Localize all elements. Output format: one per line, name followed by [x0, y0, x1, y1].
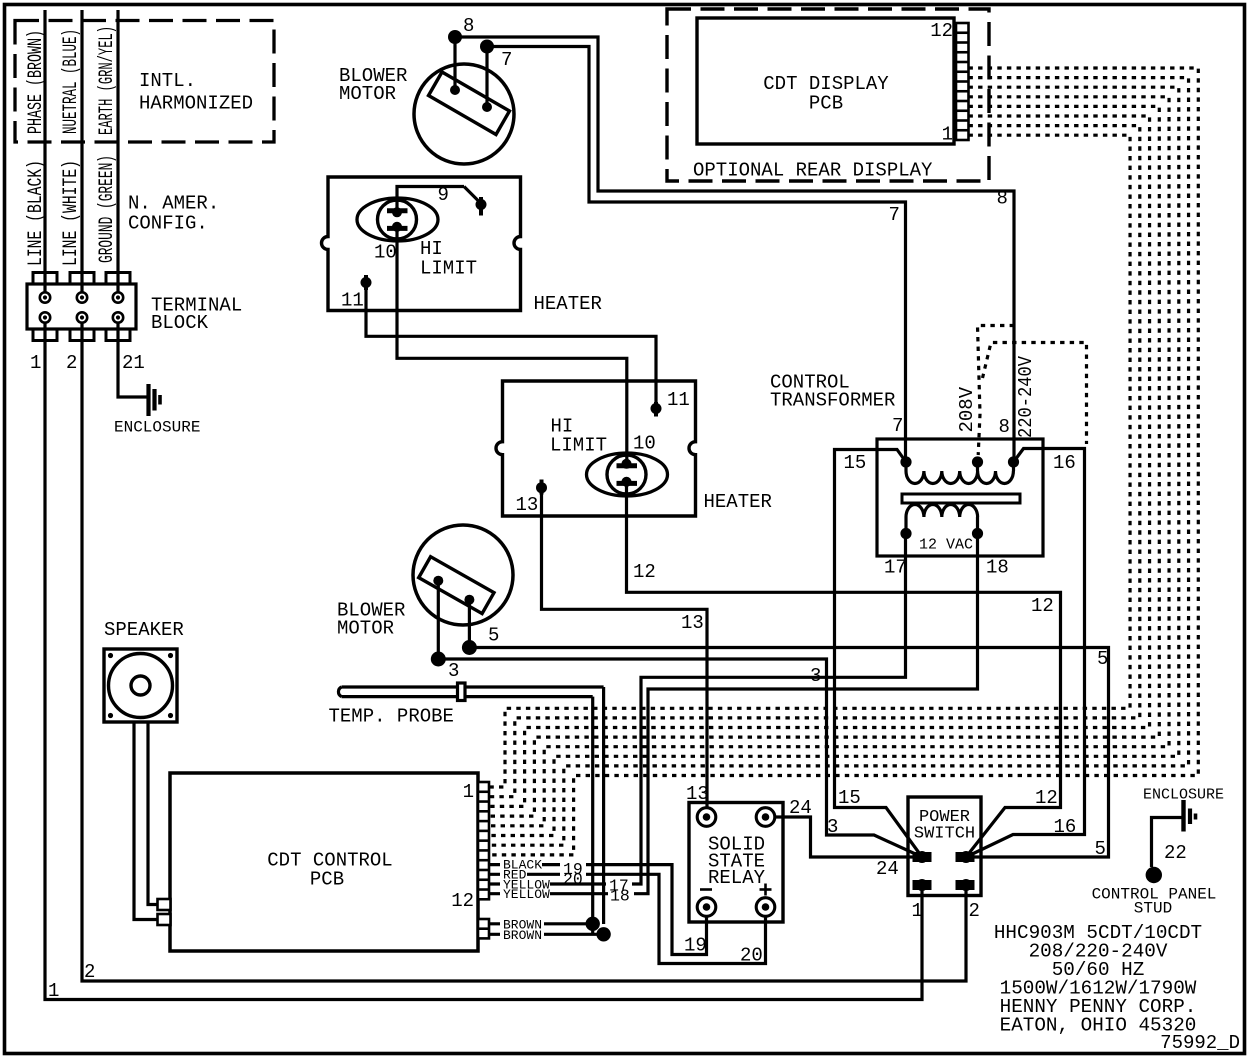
probe wire down (outer) — [602, 687, 605, 924]
switch pin 2 node — [960, 879, 972, 891]
svg-text:1: 1 — [463, 781, 474, 803]
svg-text:1: 1 — [48, 980, 59, 1002]
solid state relay SSR1 box — [689, 803, 783, 923]
svg-text:OPTIONAL REAR DISPLAY: OPTIONAL REAR DISPLAY — [693, 160, 933, 182]
pin 11 terminal dot (heater 2) — [651, 403, 662, 414]
power switch SW1 box — [908, 797, 981, 896]
switch lever to pin 9 — [464, 187, 479, 202]
wire 20 RED: control PCB to SSR plus — [489, 874, 766, 963]
wire 8: blower motor to transformer tap — [455, 37, 1014, 462]
svg-text:MOTOR: MOTOR — [337, 618, 394, 640]
SSR terminal minus — [697, 898, 716, 917]
wire 18: transformer secondary to CDT control PCB — [489, 534, 978, 894]
svg-text:15: 15 — [844, 452, 867, 474]
svg-text:1: 1 — [912, 900, 923, 922]
svg-text:TRANSFORMER: TRANSFORMER — [770, 390, 895, 412]
svg-text:7: 7 — [501, 49, 512, 71]
svg-text:2: 2 — [969, 900, 980, 922]
svg-text:12: 12 — [1035, 787, 1058, 809]
blower motor B2 pin 3 inner dot — [433, 576, 443, 586]
heater 2 outline with notches — [496, 381, 696, 516]
junction dot brown/probe upper — [586, 917, 600, 931]
wire from S1 top contact to lever — [397, 187, 464, 211]
white gaps for BROWN labels — [500, 920, 544, 928]
SSR terminal plus — [756, 898, 775, 917]
SSR plus sign — [760, 888, 772, 891]
svg-text:PCB: PCB — [310, 869, 344, 891]
junction dot pin 3 — [431, 652, 446, 667]
svg-text:PCB: PCB — [809, 93, 843, 115]
SSR minus sign — [700, 888, 712, 891]
blower motor B2 pin 5 lead — [468, 600, 471, 648]
wire 5: blower motor 2 to power switch — [469, 648, 1108, 858]
dotted display bus wire 4 (display pin to control PCB pin 5) — [489, 97, 1169, 826]
svg-text:9: 9 — [438, 184, 449, 206]
dotted display bus wire 3 (display pin to control PCB pin 6) — [489, 87, 1179, 835]
control PCB speaker connector tabs — [158, 899, 171, 910]
svg-text:BLOCK: BLOCK — [151, 312, 209, 334]
svg-text:7: 7 — [892, 415, 903, 437]
svg-text:20: 20 — [740, 945, 763, 967]
svg-text:10: 10 — [374, 242, 397, 264]
svg-text:LINE (WHITE): LINE (WHITE) — [60, 160, 83, 266]
blower motor B1 body — [414, 64, 514, 164]
svg-text:13: 13 — [516, 494, 539, 516]
blower motor B1 pin 7 inner dot — [482, 102, 492, 112]
speaker wire to PCB (inner) — [148, 722, 158, 905]
transformer secondary winding — [906, 504, 978, 517]
svg-text:STUD: STUD — [1134, 900, 1172, 918]
wire BROWN lower: PCB to temp probe — [489, 933, 604, 936]
dotted display bus wire 5 (display pin to control PCB pin 4) — [489, 106, 1159, 816]
wire earth/ground into terminal 21 — [116, 10, 119, 293]
probe collar bead — [458, 683, 466, 701]
wire 15: transformer to power switch — [835, 450, 923, 858]
dotted 208V-to-16 alternate wire — [983, 343, 1087, 445]
svg-text:BROWN: BROWN — [503, 928, 542, 943]
junction dot pin 5 — [462, 640, 477, 655]
switch pin 1 node — [916, 879, 928, 891]
svg-text:20: 20 — [563, 870, 583, 889]
temperature probe — [338, 687, 603, 697]
dotted display bus wire 6 (display pin to control PCB pin 3) — [489, 116, 1150, 806]
svg-text:21: 21 — [122, 352, 145, 374]
switch pin tab bottom-right (pin 2) — [956, 881, 974, 890]
blower motor B2 pin 3 lead — [437, 581, 440, 659]
speaker wire to PCB (outer) — [134, 722, 158, 920]
dotted display bus wire 8 (display pin to control PCB pin 1) — [489, 135, 1130, 787]
switch top-left node — [916, 851, 928, 863]
dotted display bus wire 2 (display pin to control PCB pin 7) — [489, 78, 1189, 846]
primary tap dot (pin 8/16) — [1008, 456, 1019, 467]
pin 9 terminal bar — [479, 197, 483, 216]
enclosure ground symbol (left) — [146, 384, 150, 416]
CDT CONTROL PCB box — [170, 773, 478, 951]
svg-text:19: 19 — [684, 935, 707, 957]
svg-text:11: 11 — [341, 290, 364, 312]
terminal block TB1 — [27, 284, 136, 329]
svg-text:TEMP. PROBE: TEMP. PROBE — [329, 706, 454, 728]
control PCB main header (12 pins) — [478, 782, 489, 899]
svg-text:15: 15 — [838, 787, 861, 809]
pin 9 terminal dot — [476, 199, 487, 210]
hi-limit S2 top contact bar — [617, 463, 638, 468]
transformer core — [902, 494, 1020, 503]
svg-text:LIMIT: LIMIT — [550, 435, 607, 457]
blower motor B1 flap — [429, 72, 510, 135]
hi-limit S2 bottom contact dot — [622, 477, 632, 487]
svg-text:12 VAC: 12 VAC — [919, 537, 973, 554]
svg-text:3: 3 — [448, 660, 459, 682]
svg-text:LIMIT: LIMIT — [420, 258, 477, 280]
wire 12: heater2 to power switch — [627, 483, 1061, 857]
svg-text:12: 12 — [451, 890, 474, 912]
wire 13: heater2 pin 13 to solid state relay — [542, 488, 708, 808]
wire 2: terminal block to power switch pin 2 — [82, 323, 966, 982]
primary tap dot (208V) — [972, 456, 983, 467]
secondary dot pin 18 — [972, 528, 983, 539]
junction dot brown/probe lower — [596, 927, 610, 941]
white gaps for wire colour/number labels — [500, 861, 542, 869]
INTL. HARMONIZED dashed box — [15, 21, 274, 143]
svg-text:18: 18 — [986, 557, 1009, 579]
speaker SP1 — [104, 649, 177, 722]
hi-limit S1 bottom contact dot — [392, 222, 402, 232]
switch pin tab top-right — [956, 853, 974, 862]
svg-text:8: 8 — [463, 15, 474, 37]
switch pin tab top-left — [913, 853, 931, 862]
switch top-right node — [960, 851, 972, 863]
svg-text:3: 3 — [827, 816, 838, 838]
control panel stud — [1146, 867, 1162, 883]
svg-text:1: 1 — [942, 124, 953, 146]
svg-text:22: 22 — [1164, 842, 1187, 864]
svg-text:18: 18 — [610, 887, 630, 906]
wire L2 neutral/line-white into terminal 2 — [80, 10, 83, 293]
svg-text:13: 13 — [681, 612, 704, 634]
junction dot pin 8 — [448, 30, 462, 44]
svg-text:CONFIG.: CONFIG. — [128, 213, 208, 235]
blower motor B1 pin 7 lead — [485, 47, 488, 108]
SSR terminal 24 (top right) — [756, 808, 775, 827]
dotted display bus wire 1 (display pin to control PCB pin 8) — [489, 68, 1198, 855]
wire 21 to enclosure ground — [118, 323, 147, 398]
wire 19 BLACK: control PCB to SSR minus — [489, 865, 707, 955]
svg-text:16: 16 — [1053, 452, 1076, 474]
blower motor B2 pin 5 inner dot — [464, 595, 474, 605]
wire 22: enclosure to control panel stud — [1152, 818, 1182, 868]
blower motor B1 pin 8 inner dot — [450, 85, 460, 95]
svg-text:EARTH (GRN/YEL): EARTH (GRN/YEL) — [96, 26, 119, 135]
svg-text:5: 5 — [488, 625, 499, 647]
svg-text:2: 2 — [66, 352, 77, 374]
secondary dot pin 17 — [900, 528, 911, 539]
svg-text:2: 2 — [84, 961, 95, 983]
blower motor B2 flap — [419, 557, 494, 614]
svg-text:ENCLOSURE: ENCLOSURE — [114, 419, 200, 437]
wire L1 phase/line-black into terminal 1 — [43, 10, 46, 293]
wire 24: SSR to power switch — [775, 817, 913, 857]
display connector J1 — [956, 23, 969, 140]
svg-text:PHASE (BROWN): PHASE (BROWN) — [25, 30, 48, 134]
svg-text:GROUND (GREEN): GROUND (GREEN) — [96, 155, 119, 263]
svg-text:HARMONIZED: HARMONIZED — [139, 93, 253, 115]
svg-text:12: 12 — [1031, 595, 1054, 617]
svg-text:HEATER: HEATER — [534, 293, 602, 315]
svg-text:SPEAKER: SPEAKER — [104, 619, 184, 641]
svg-text:24: 24 — [876, 858, 899, 880]
hi-limit thermostat S1 — [357, 198, 438, 241]
pin 11 terminal bar (heater 1) — [364, 275, 368, 290]
pin 13 terminal dot — [536, 482, 547, 493]
blower motor B1 pin 8 lead — [453, 37, 456, 90]
svg-text:220-240V: 220-240V — [1015, 355, 1037, 438]
control PCB 2-pin header — [478, 919, 489, 938]
enclosure ground symbol (right) — [1181, 800, 1185, 832]
primary tap dot (pin 7/15) — [900, 456, 911, 467]
svg-text:HEATER: HEATER — [704, 491, 772, 513]
svg-text:LINE (BLACK): LINE (BLACK) — [25, 160, 48, 266]
control transformer T1 box — [877, 439, 1043, 556]
wire 7: blower motor to transformer tap — [487, 47, 906, 463]
wire 1: terminal block to power switch pin 1 — [45, 323, 922, 1000]
svg-text:7: 7 — [889, 204, 900, 226]
switch pin tab bottom-left (pin 1) — [913, 881, 931, 890]
wire 17: transformer secondary to CDT control PCB — [489, 534, 906, 885]
svg-text:12: 12 — [633, 561, 656, 583]
wire BROWN upper: PCB to temp probe — [489, 922, 593, 925]
svg-text:N. AMER.: N. AMER. — [128, 193, 219, 215]
junction dot pin 7 — [480, 40, 494, 54]
svg-text:5: 5 — [1095, 838, 1106, 860]
svg-text:1: 1 — [30, 352, 41, 374]
pin 11 terminal bar (heater 2) — [654, 402, 658, 417]
svg-text:3: 3 — [810, 665, 821, 687]
wire 16: transformer to power switch — [966, 449, 1085, 858]
heater 1 outline with notches — [322, 177, 521, 311]
svg-text:5: 5 — [1097, 648, 1108, 670]
hi-limit S1 top contact bar — [387, 208, 408, 213]
wire 3: blower motor 2 to power switch — [438, 659, 922, 857]
hi-limit S1 top contact dot — [392, 207, 402, 217]
transformer primary winding — [906, 462, 1014, 471]
hi-limit S2 bottom contact bar — [617, 481, 638, 486]
hi-limit S1 bottom contact bar — [387, 226, 408, 231]
svg-text:MOTOR: MOTOR — [339, 83, 396, 105]
SSR terminal 13 (top left) — [697, 808, 716, 827]
blower motor B2 body — [413, 525, 513, 625]
svg-text:11: 11 — [667, 389, 690, 411]
svg-text:RELAY: RELAY — [708, 867, 766, 889]
probe wire down (inner) — [591, 697, 594, 935]
OPTIONAL REAR DISPLAY dashed box — [667, 9, 989, 181]
svg-text:208V: 208V — [956, 386, 978, 432]
svg-text:NUETRAL (BLUE): NUETRAL (BLUE) — [60, 29, 83, 134]
pin 11 terminal dot (heater 1) — [361, 277, 372, 288]
CDT DISPLAY PCB box — [697, 18, 954, 144]
svg-text:75992_D: 75992_D — [1160, 1032, 1240, 1054]
pin 13 terminal bar — [540, 480, 544, 495]
wire 11: heater1 pin 11 to heater2 pin 11 — [366, 290, 656, 402]
dotted 208V alternate wire — [978, 326, 1015, 456]
svg-text:12: 12 — [930, 20, 953, 42]
svg-text:SWITCH: SWITCH — [914, 825, 975, 844]
svg-text:YELLOW: YELLOW — [503, 887, 550, 902]
dotted display bus wire 7 (display pin to control PCB pin 2) — [489, 126, 1140, 797]
svg-text:17: 17 — [884, 557, 907, 579]
hi-limit thermostat S2 — [587, 453, 668, 496]
svg-text:8: 8 — [999, 416, 1010, 438]
svg-text:16: 16 — [1054, 816, 1077, 838]
hi-limit S2 top contact dot — [622, 459, 632, 469]
svg-text:INTL.: INTL. — [139, 70, 196, 92]
svg-text:8: 8 — [997, 188, 1008, 210]
svg-text:10: 10 — [633, 433, 656, 455]
wire 10: heater1 hi-limit to heater2 hi-limit — [397, 228, 627, 461]
